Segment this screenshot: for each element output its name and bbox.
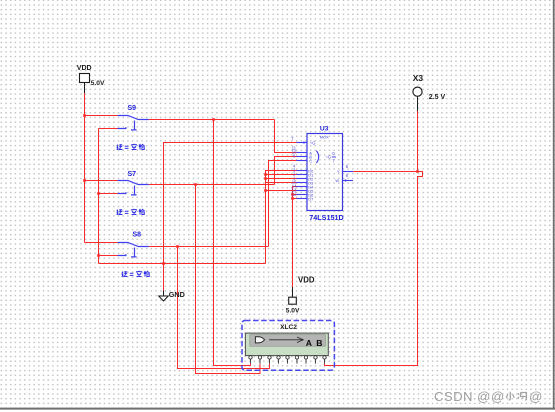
pin D1 stub [297, 174, 308, 176]
wire S9 to pin A [275, 120, 298, 153]
svg-text:5.0V: 5.0V [91, 80, 105, 87]
wire S9 branch to XLC2 pin1 [214, 120, 251, 366]
pin D5 stub [297, 190, 308, 192]
svg-text:XLC2: XLC2 [280, 324, 297, 331]
switch S9 [118, 116, 149, 130]
pin G stub [297, 141, 308, 144]
junction ground node [162, 262, 165, 265]
pin Y stub [343, 171, 354, 173]
switch S7 [118, 181, 149, 195]
wire S7 branch to XLC2 pin2 [196, 185, 261, 374]
wire D3 [266, 182, 298, 184]
svg-text:X3: X3 [413, 73, 424, 83]
svg-text:D7: D7 [308, 196, 313, 201]
svg-text:Y: Y [337, 169, 340, 174]
pin D2 stub [297, 178, 308, 180]
svg-text:VDD: VDD [77, 65, 92, 72]
junction S7 lower bus [97, 192, 100, 195]
junction Y probe node [416, 170, 419, 173]
wire S8 to pin C [269, 161, 298, 247]
svg-text:U3: U3 [320, 125, 329, 132]
select brace [316, 151, 318, 163]
svg-text:@: @ [529, 389, 542, 404]
svg-text:~G: ~G [310, 141, 316, 146]
wire S9 output [149, 119, 275, 121]
wire S9 lower terminal [99, 128, 118, 130]
svg-text:A B: A B [306, 338, 324, 348]
svg-text:S9: S9 [128, 105, 137, 112]
pin D4 stub [297, 186, 308, 188]
wire switch lower-contacts bus [98, 129, 100, 264]
svg-text:74LS151D: 74LS151D [309, 213, 343, 222]
junction D1 [264, 173, 267, 176]
svg-text:W: W [335, 178, 339, 183]
wire S8 branch to XLC2 pin3 [178, 247, 270, 369]
svg-text:~G: ~G [325, 155, 331, 160]
switch S8 [118, 243, 149, 257]
pin D7 stub [297, 198, 308, 200]
power source VDD2 [289, 287, 297, 304]
svg-text:MUX: MUX [320, 134, 329, 139]
wire D2 [266, 178, 298, 180]
svg-text:2.5 V: 2.5 V [429, 94, 446, 101]
pin W stub [343, 179, 354, 182]
power source VDD1 [80, 74, 90, 94]
junction S9 output branch [212, 118, 215, 121]
pin B stub [297, 156, 308, 158]
window border bottom [0, 408, 555, 410]
wire probe to XLC2 with jog [325, 172, 423, 366]
probe X3 [413, 87, 422, 111]
wire D7 [293, 198, 298, 200]
wire S7 output [149, 184, 275, 186]
junction S8 output branch [176, 245, 179, 248]
wire GND lane to D0 [266, 171, 298, 264]
svg-text:12: 12 [292, 192, 297, 197]
pin A stub [297, 152, 308, 154]
wire S7 to pin B [275, 157, 298, 185]
instrument XLC2 logic converter body [245, 333, 328, 356]
junction S7 output branch [194, 183, 197, 186]
pin D0 stub [297, 170, 308, 172]
junction VDD bus at S7 [83, 179, 86, 182]
label S9 key equals space [116, 144, 144, 150]
chip U3 74LS151D body [307, 134, 343, 211]
svg-text:VDD: VDD [298, 276, 315, 285]
pin D6 stub [297, 194, 308, 196]
ground symbol GND [159, 291, 169, 302]
junction S8 lower bus [97, 254, 100, 257]
junction D7 [291, 197, 294, 200]
wire ground riser and G pin wire [164, 143, 298, 291]
svg-text:CSDN @@: CSDN @@ [434, 389, 505, 404]
wire probe stem [417, 111, 419, 172]
wire S8 top terminal [85, 242, 118, 244]
svg-text:S7: S7 [128, 171, 137, 178]
svg-text:GND: GND [169, 290, 185, 299]
label G 0/7 [325, 151, 336, 164]
junction D5 [264, 189, 267, 192]
wire D5 [266, 190, 298, 192]
junction VDD bus at S9 [83, 114, 86, 117]
wire S9 top terminal [85, 115, 118, 117]
XLC2 terminal pins [249, 356, 326, 364]
wire VDD lane to D4 [293, 187, 298, 288]
window border right [553, 0, 555, 410]
watermark CSDN [434, 389, 542, 404]
svg-text:S8: S8 [133, 232, 142, 239]
wire S7 lower terminal [99, 193, 118, 195]
junction D6 [291, 193, 294, 196]
wire ground horizontal [99, 263, 266, 265]
wire Y output [353, 171, 418, 173]
label S8 key equals space [121, 271, 149, 277]
wire S8 output [149, 246, 269, 248]
wire S7 top terminal [85, 180, 118, 182]
label S7 key equals space [116, 209, 144, 215]
wire VDD bus vertical [84, 93, 86, 243]
pin C stub [297, 160, 308, 162]
wire D6 [293, 194, 298, 196]
pin D3 stub [297, 182, 308, 184]
svg-text:C: C [309, 158, 312, 163]
wire S8 lower terminal [99, 255, 118, 257]
junction D2 [264, 177, 267, 180]
wire D1 [266, 174, 298, 176]
instrument XLC2 dashed boundary [242, 321, 334, 371]
svg-text:5.0V: 5.0V [286, 308, 300, 315]
